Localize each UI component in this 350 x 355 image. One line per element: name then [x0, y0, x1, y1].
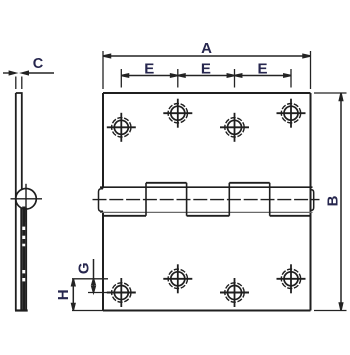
knuckle joint edge 1: [145, 183, 147, 216]
dimension A line: [103, 54, 311, 57]
front plate outline: [103, 93, 311, 311]
hole H5: [107, 278, 136, 307]
dimension E extension lines: [121, 69, 291, 88]
side view bottom cap: [15, 309, 28, 311]
svg-text:E: E: [257, 61, 267, 78]
dimension C extension lines: [16, 77, 22, 90]
svg-text:A: A: [201, 40, 212, 57]
dimension A extension lines: [103, 51, 311, 89]
svg-text:H: H: [55, 289, 72, 300]
svg-text:E: E: [201, 61, 211, 78]
dimension H extension line (bottom edge): [72, 310, 103, 312]
knuckle upper segment 1 top: [146, 182, 187, 184]
dimension B line: [339, 93, 342, 311]
svg-text:G: G: [76, 262, 93, 274]
side view lower leaf inner line: [20, 208, 22, 311]
knuckle upper segment 2 top: [229, 182, 269, 184]
side view hidden line white gap 1: [22, 227, 25, 230]
knuckle barrel bottom line: [100, 211, 313, 213]
side view hidden line white gap 4: [22, 270, 25, 273]
side view knuckle hidden edge (solid core): [22, 207, 25, 311]
hole H1: [107, 113, 136, 142]
dimension B extension bottom: [314, 310, 347, 312]
dimension E line: [121, 74, 291, 77]
hole H2: [163, 99, 192, 128]
side view hidden line white gap 5: [22, 278, 25, 281]
circle crosshair vertical: [25, 184, 27, 222]
side view hidden line white gap 2: [22, 236, 25, 239]
side view hidden line white gap 3: [22, 244, 25, 247]
hole H7: [220, 278, 249, 307]
circle crosshair horizontal: [11, 198, 43, 200]
side view curl outer line: [25, 208, 27, 311]
pin end cap right: [311, 190, 314, 211]
dimension G extension line: [72, 278, 108, 280]
svg-text:B: B: [325, 195, 342, 206]
svg-text:C: C: [33, 56, 44, 72]
hole H8: [277, 264, 306, 293]
svg-text:E: E: [144, 61, 154, 78]
knuckle lower segment 2 bottom: [187, 215, 230, 217]
dimension B extension top: [314, 92, 347, 94]
knuckle barrel top line: [100, 186, 313, 188]
knuckle joint edge 4: [269, 183, 271, 216]
dimension C line right: [22, 71, 54, 74]
hole H4: [277, 99, 306, 128]
dimension H line: [72, 279, 75, 311]
dimension G line: [92, 259, 95, 293]
hole H3: [220, 113, 249, 142]
knuckle barrel circle (side view): [16, 189, 37, 210]
side view leaf upper: [16, 93, 22, 189]
side view leaf left edge full height: [15, 93, 17, 311]
knuckle lower segment 1 bottom: [103, 215, 146, 217]
dimension H extension line (hole row): [88, 292, 112, 294]
pin centerline dashed: [93, 199, 320, 201]
knuckle joint edge 2: [186, 183, 188, 216]
hole H6: [163, 264, 192, 293]
knuckle lower segment 3 bottom: [270, 215, 311, 217]
knuckle joint edge 3: [228, 183, 230, 216]
pin end cap left: [99, 189, 104, 212]
dimension C line left: [3, 71, 16, 74]
